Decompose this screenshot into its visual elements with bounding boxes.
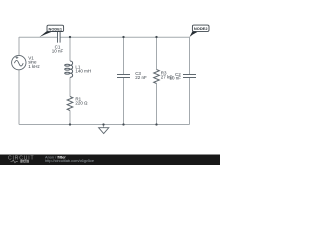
svg-text:22 nF: 22 nF — [135, 75, 147, 80]
wire top left segment — [19, 36, 57, 38]
node junction dot bottom R1 — [69, 123, 71, 125]
resistor R3 — [154, 70, 160, 84]
resistor R1 — [67, 97, 73, 111]
svg-text:10 nF: 10 nF — [52, 49, 64, 54]
svg-text:LAB: LAB — [22, 159, 28, 163]
node junction dot top R3 — [155, 36, 157, 38]
svg-text:220 Ω: 220 Ω — [75, 101, 88, 106]
node NODE1 flag — [40, 25, 64, 37]
wire between L1 and R1 — [69, 77, 71, 96]
wire V1 top — [18, 37, 20, 55]
node NODE2 flag — [190, 25, 210, 37]
capacitor C3 — [117, 75, 130, 78]
svg-text:NODE1: NODE1 — [49, 26, 63, 31]
svg-text:NODE2: NODE2 — [194, 26, 208, 31]
wire V1 bottom — [18, 70, 20, 125]
wire top right segment — [60, 36, 189, 38]
node junction dot ground — [102, 123, 104, 125]
wire C2 bottom — [189, 78, 191, 125]
svg-text:10 nF: 10 nF — [169, 76, 181, 81]
wire C3 top — [123, 37, 125, 74]
wire bottom rail — [19, 124, 190, 126]
footer bar — [0, 155, 220, 166]
wire R3 top — [156, 37, 158, 70]
wire R3 bottom — [156, 84, 158, 125]
svg-text:140 mH: 140 mH — [75, 69, 91, 74]
inductor L1 — [65, 61, 73, 77]
wire C2 top — [189, 37, 191, 74]
node junction dot top L1 — [69, 36, 71, 38]
footer logo LAB — [20, 160, 29, 163]
footer logo waveform — [11, 160, 18, 163]
voltage source V1 — [12, 55, 26, 69]
svg-text:1 kHz: 1 kHz — [28, 64, 40, 69]
wire L1 branch top — [69, 37, 71, 61]
node junction dot top C3 — [122, 36, 124, 38]
wire C3 bottom — [123, 78, 125, 125]
capacitor C2 — [183, 75, 196, 78]
node junction dot bottom C3 — [122, 123, 124, 125]
capacitor C1 — [58, 32, 61, 43]
wire R1 bottom — [69, 111, 71, 125]
wire ground stub — [103, 125, 105, 128]
node junction dot bottom R3 — [155, 123, 157, 125]
ground — [99, 128, 109, 134]
svg-text:http://circuitlab.com/c6gv5ce: http://circuitlab.com/c6gv5ce — [45, 158, 94, 163]
